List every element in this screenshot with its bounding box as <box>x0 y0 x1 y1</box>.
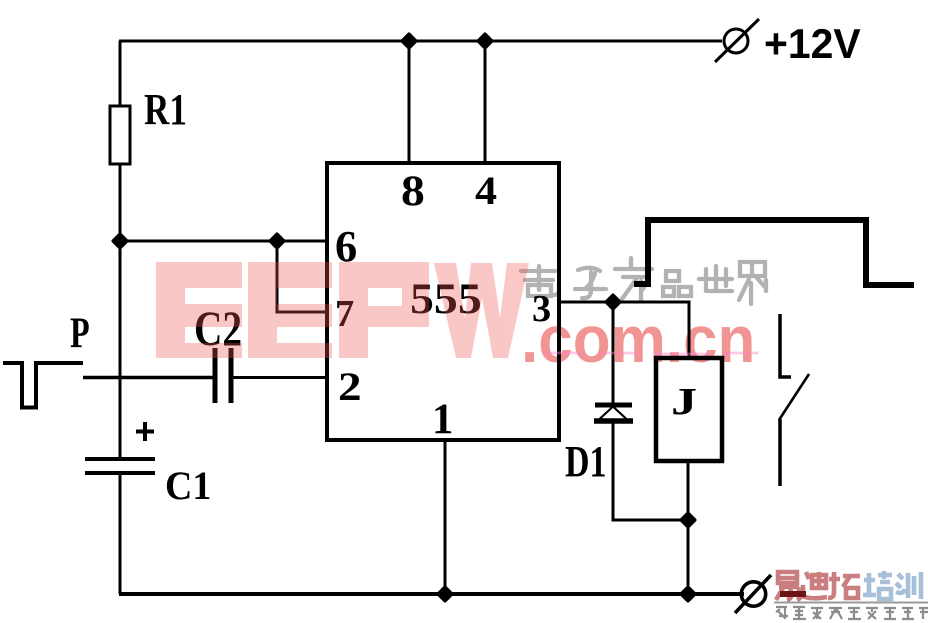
resistor R1 <box>110 106 130 164</box>
watermark pink dashes <box>545 353 758 354</box>
terminal ground circle <box>735 575 771 613</box>
pin 1 label <box>432 396 453 443</box>
svg-text:2: 2 <box>338 365 362 409</box>
resistor R1 label <box>144 84 187 134</box>
relay J label <box>671 380 697 422</box>
svg-text:4: 4 <box>475 170 497 214</box>
svg-text:1: 1 <box>432 396 453 443</box>
wire bottom ground rail <box>119 592 744 596</box>
input node P label <box>70 310 90 358</box>
logo dark red bar <box>780 591 806 597</box>
wire pin 1 <box>444 440 447 594</box>
pin 2 label <box>338 365 362 409</box>
logo slogan gray characters <box>776 607 928 619</box>
output pulse waveform <box>634 220 914 285</box>
watermark .com.cn <box>521 302 755 376</box>
input pulse waveform P annotation <box>3 363 83 408</box>
relay J box <box>656 358 722 461</box>
logo EDT training red and blue characters <box>776 572 860 600</box>
pin 7 label <box>335 293 354 335</box>
diode D1 label <box>565 437 606 487</box>
svg-text:3: 3 <box>532 288 551 330</box>
wire R1 bottom to node <box>119 165 122 241</box>
node pin6/pin7 junction <box>271 235 284 248</box>
wire C2 to pin 2 <box>233 376 326 379</box>
node relay to ground rail <box>682 588 695 601</box>
+12V supply label <box>764 21 861 67</box>
pin 3 label <box>532 288 551 330</box>
svg-text:P: P <box>70 310 90 358</box>
C1 plus sign <box>136 422 154 441</box>
wire C1 bottom to ground rail <box>119 475 122 594</box>
pin 8 label <box>401 167 425 214</box>
node pin3/D1 junction <box>607 296 620 309</box>
watermark EEPW <box>156 262 529 358</box>
wire pin 3 output <box>559 302 689 357</box>
capacitor C1 plates <box>85 459 155 473</box>
wire P to C2 <box>83 376 213 380</box>
svg-text:J: J <box>671 380 697 422</box>
node pin4 to +12V rail <box>479 35 492 48</box>
pin 4 label <box>475 170 497 214</box>
capacitor C2 label <box>194 301 242 356</box>
node pin1 to ground rail <box>439 588 452 601</box>
wire node to C1 top <box>119 241 122 457</box>
capacitor C1 label <box>165 464 211 508</box>
svg-text:D1: D1 <box>565 437 606 487</box>
wire pin 8 <box>408 41 411 163</box>
wire relay J to ground rail <box>687 462 690 594</box>
node D1/relay junction <box>682 514 695 527</box>
IC 555 box U1 <box>327 163 559 440</box>
terminal +12V circle <box>715 19 759 62</box>
watermark chinese calligraphy EEPW slogan <box>521 258 766 304</box>
wire stub pin 7 <box>277 241 326 312</box>
svg-text:C1: C1 <box>165 464 211 508</box>
node R1/C1/pin6 junction <box>114 235 127 248</box>
pin 6 label <box>335 221 357 271</box>
capacitor C2 plates <box>215 348 231 403</box>
relay contact switch <box>779 314 809 486</box>
svg-text:8: 8 <box>401 167 425 214</box>
wire top rail +12V <box>119 40 722 43</box>
wire D1 branch <box>612 302 615 404</box>
svg-text:R1: R1 <box>144 84 187 134</box>
wire D1 anode down <box>613 421 688 520</box>
IC value 555 <box>410 275 482 322</box>
svg-text:+12V: +12V <box>764 21 861 67</box>
wire left vertical to R1 <box>119 41 122 105</box>
node pin8 to +12V rail <box>403 35 416 48</box>
logo underline rule <box>774 602 928 604</box>
diode D1 <box>594 405 633 421</box>
wire pin 4 <box>484 41 487 163</box>
wire node to pin 6 <box>120 240 326 243</box>
